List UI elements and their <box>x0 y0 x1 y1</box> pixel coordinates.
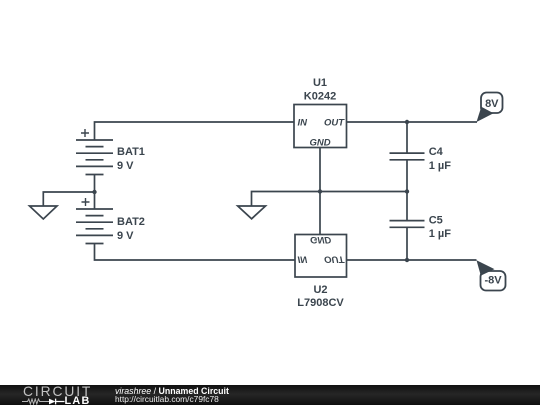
svg-text:K0242: K0242 <box>304 90 336 102</box>
wire U1 OUT to 8V flag <box>347 121 478 123</box>
svg-text:U2: U2 <box>313 284 327 296</box>
svg-text:C4: C4 <box>429 146 444 158</box>
battery BAT1 <box>76 129 145 175</box>
wire U1 GND to U2 GND <box>319 148 321 235</box>
BAT1 plus terminal mark <box>81 129 89 137</box>
wire node A to ground <box>43 192 94 206</box>
node cap junction <box>405 189 409 193</box>
svg-text:IN: IN <box>298 118 309 129</box>
ground (left) <box>30 206 58 219</box>
svg-text:GND: GND <box>309 138 330 149</box>
svg-text:OUT: OUT <box>324 253 345 264</box>
BAT2 plus terminal mark <box>82 198 90 206</box>
wire U2 OUT to -8V flag <box>347 259 477 261</box>
flag 8V <box>477 93 503 123</box>
svg-text:-8V: -8V <box>484 275 502 287</box>
node A junction <box>92 190 96 194</box>
CircuitLab logo <box>23 386 92 397</box>
wire GND node to capacitor node <box>320 191 407 193</box>
node GND junction <box>318 189 322 193</box>
op-amp U2 (voltage regulator L7908CV, flipped) <box>295 234 347 309</box>
battery BAT2 <box>76 198 145 244</box>
svg-text:OUT: OUT <box>324 118 345 129</box>
svg-text:IN: IN <box>298 253 309 264</box>
svg-text:9 V: 9 V <box>117 160 134 172</box>
node 8V junction <box>405 120 409 124</box>
svg-text:1 µF: 1 µF <box>429 228 452 240</box>
svg-text:GND: GND <box>310 234 331 245</box>
svg-text:U1: U1 <box>313 77 327 89</box>
node -8V junction <box>405 258 409 262</box>
flag -8V <box>477 260 506 290</box>
wire GND node to ground <box>252 192 321 206</box>
capacitor C4 <box>390 122 452 192</box>
svg-text:C5: C5 <box>429 214 443 226</box>
wire BAT1+ to U1 IN <box>95 122 295 140</box>
wire BAT1- to node A <box>94 175 96 193</box>
svg-text:1 µF: 1 µF <box>429 160 452 172</box>
footer title text <box>115 387 229 396</box>
footer bar <box>0 385 540 406</box>
svg-text:8V: 8V <box>485 98 499 110</box>
svg-text:BAT1: BAT1 <box>117 146 145 158</box>
svg-text:9 V: 9 V <box>117 230 134 242</box>
footer url text <box>115 395 219 404</box>
capacitor C5 <box>390 192 452 261</box>
wire node A to BAT2+ <box>94 192 96 209</box>
ground (middle) <box>238 206 266 219</box>
svg-text:BAT2: BAT2 <box>117 216 145 228</box>
wire BAT2- to U2 IN <box>95 244 296 261</box>
op-amp U1 (voltage regulator K0242) <box>294 77 347 149</box>
svg-text:L7908CV: L7908CV <box>297 297 344 309</box>
